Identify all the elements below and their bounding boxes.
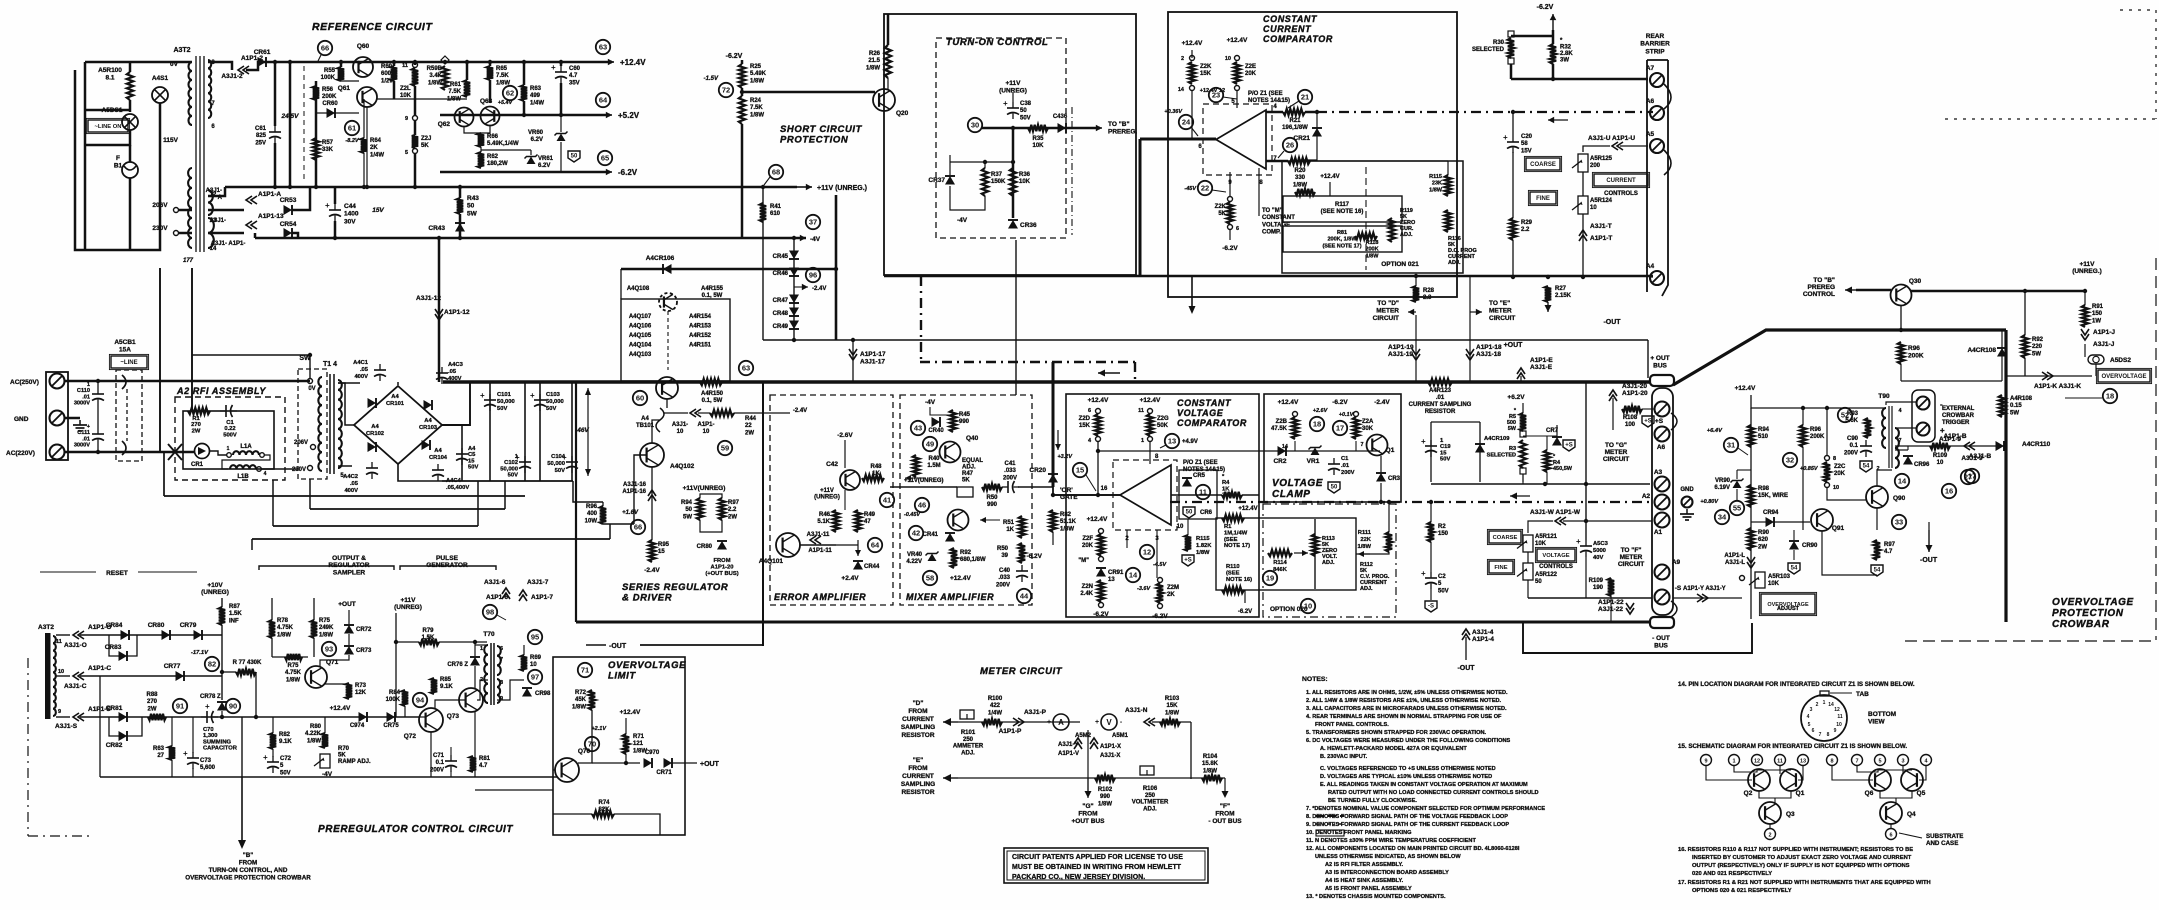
IC Z1 pin 7 [1819, 732, 1822, 738]
dashed box cc opamp [1203, 104, 1272, 175]
capacitor C70 summing [201, 702, 218, 723]
label R111 22K 1/8W [1357, 530, 1371, 550]
pad R30 top [1508, 31, 1514, 37]
label L1B pin4 [264, 471, 267, 477]
label R115 1.82K [1196, 536, 1212, 556]
arrow below comparator [1189, 277, 1196, 314]
svg-text:10: 10 [1225, 56, 1231, 62]
label R97 2.2 2W [728, 500, 740, 520]
text note line 10 [1320, 766, 1496, 772]
svg-text:10: 10 [1304, 602, 1312, 611]
IC Z1 pin 14 [1828, 702, 1834, 708]
dimension arrow 46V [585, 388, 591, 476]
label L1B [237, 474, 249, 480]
capacitor A5C3 5000 40V [1576, 537, 1592, 557]
circled 66b [318, 41, 332, 55]
resistor R35 10K [1028, 125, 1048, 131]
svg-text:A4Q101: A4Q101 [759, 558, 784, 565]
label R76 4.75K 1/8W [285, 663, 302, 683]
wire R87 v [221, 598, 223, 607]
label Q5 ic [1917, 790, 1926, 797]
wire C19 loop [1431, 421, 1480, 423]
label Q61 [338, 85, 351, 92]
lamp A4S1 [152, 87, 168, 103]
svg-text:65: 65 [601, 154, 609, 163]
label R97 4.7 [1884, 542, 1896, 555]
label R70 5K RAMP ADJ [338, 746, 371, 765]
wire ic q3 emit [1769, 824, 1771, 829]
svg-text:+0.36V: +0.36V [1164, 109, 1183, 115]
circled 27 [1961, 470, 1975, 484]
svg-text:CURRENT: CURRENT [1606, 178, 1636, 184]
resistor R76 4.75K [285, 654, 302, 660]
connector A1P1-U [1612, 142, 1623, 150]
label CR43 [428, 225, 445, 232]
svg-text:+2.1V: +2.1V [591, 726, 607, 732]
bus jumper arc1 [1671, 413, 1677, 430]
label pin8 [1259, 180, 1263, 186]
label +0.88V cb [1800, 466, 1819, 472]
label -4.5V cv [1153, 562, 1167, 568]
wire R63 top [523, 62, 526, 85]
circled 64b [868, 538, 882, 552]
label C102 50000 50V [500, 454, 519, 479]
resistor R96 200K [1898, 342, 1904, 364]
terminal Z2G bot [1148, 437, 1153, 442]
svg-text:11. N DENOTES ±30% PPM WIRE TE: 11. N DENOTES ±30% PPM WIRE TEMPERATURE … [1306, 838, 1476, 844]
wire ic q5 base [1902, 766, 1904, 774]
resistor R113 5K [1312, 534, 1318, 556]
label CR95 [1914, 462, 1930, 468]
label pin 10 [1225, 56, 1231, 62]
svg-text:C40.033200V: C40.033200V [996, 568, 1011, 588]
capacitor C1 0.22 500V [220, 405, 237, 417]
label A3J1-16 [622, 482, 646, 495]
svg-text:+: + [1421, 437, 1426, 446]
terminal T1 230V [308, 466, 313, 471]
wire R60 col [393, 62, 396, 66]
svg-text:CR71: CR71 [656, 770, 672, 776]
label A9 bus [1672, 559, 1681, 566]
arrow -OUT crowbar [1926, 530, 1933, 552]
svg-text:+12.4V: +12.4V [330, 705, 351, 712]
svg-text:1: 1 [1141, 438, 1144, 444]
svg-text:Q61: Q61 [338, 85, 351, 92]
label TO B PREREG [1108, 121, 1137, 136]
svg-text:206V: 206V [152, 202, 168, 209]
label C19 15 50V [1440, 438, 1451, 463]
junction rail 187 x763 [761, 185, 765, 189]
label Q62 [438, 121, 451, 128]
junction +12.4V rail x341 [339, 60, 343, 64]
svg-text:A4CR109: A4CR109 [1484, 436, 1510, 442]
wire CR90 v [1793, 530, 1795, 540]
label +OUT mid [1504, 342, 1524, 349]
wire pots join v [1527, 552, 1529, 563]
terminal A5 [1650, 139, 1664, 153]
transistor Q73 [459, 688, 483, 712]
arrow B down [238, 840, 246, 849]
svg-text:Q73: Q73 [447, 713, 460, 720]
svg-text:5: 5 [405, 150, 408, 156]
svg-text:GND: GND [1680, 487, 1694, 493]
wire pin9 down [1229, 172, 1231, 196]
svg-text:TO "F"METERCIRCUIT: TO "F"METERCIRCUIT [1618, 547, 1644, 568]
label P/O Z1 cv [1183, 460, 1225, 473]
resistor R56 200K [313, 86, 319, 100]
wire ovl bottom wires [475, 789, 553, 791]
wire clamp node2 [1355, 441, 1357, 451]
diode CR970 [644, 758, 653, 768]
label A5M1 [1112, 733, 1129, 739]
wire CR90 bot [1793, 550, 1795, 560]
label A3J1-J [2093, 341, 2115, 348]
wire meter right v [1190, 722, 1192, 779]
svg-text:COARSE: COARSE [1530, 162, 1556, 168]
circled 91 [173, 699, 187, 713]
label TAB [1856, 691, 1869, 698]
label CR37 [928, 177, 945, 184]
svg-text:Q4: Q4 [1907, 811, 1916, 818]
svg-text:CR77: CR77 [164, 663, 181, 670]
wire R109 bot [1610, 596, 1612, 622]
resistor R118 200K [1355, 233, 1377, 239]
label A3J1-7 [527, 579, 549, 586]
transformer A3T2 primary winding lower [188, 168, 192, 248]
heavy wire cc input [1140, 138, 1216, 141]
circled 64 [596, 93, 610, 107]
label T90 pin7 [1898, 438, 1901, 444]
wire R4 wires [1546, 436, 1548, 450]
IC pin number 7 [1855, 759, 1858, 765]
jumper arc A7-A6 [1664, 84, 1671, 109]
circled 11 cv [1196, 485, 1210, 499]
lamp A5DS1 [122, 114, 138, 130]
label VR60 6.2V [528, 130, 544, 143]
diode CR76 [470, 657, 480, 666]
svg-text:50: 50 [1331, 485, 1338, 491]
svg-text:+: + [1940, 426, 1945, 435]
label C104 50000 50V [547, 454, 566, 474]
svg-text:7: 7 [1898, 438, 1901, 444]
wire R21 to junction [1305, 111, 1317, 114]
title SERIES REGULATOR DRIVER [622, 582, 728, 604]
resistor R94 50 5W [697, 498, 703, 520]
label R2 150 [1438, 524, 1449, 537]
label C90 0.1 200V [1844, 436, 1859, 456]
terminal Z2J top [413, 116, 418, 121]
wire C102 column [524, 382, 526, 481]
label PULSE GENERATOR [426, 555, 468, 569]
svg-text:ADJUST: ADJUST [1777, 606, 1800, 612]
resistor R73 12K [346, 683, 352, 699]
label T70 [483, 631, 495, 638]
label -2.4V chain [812, 286, 826, 292]
svg-text:REFERENCE CIRCUIT: REFERENCE CIRCUIT [312, 21, 433, 33]
svg-text:R3610K: R3610K [1019, 172, 1031, 185]
svg-text:A5M1: A5M1 [1112, 733, 1129, 739]
voltmeter A5M1 [1095, 714, 1123, 730]
wire R43 column [459, 187, 462, 198]
circled 34 [1715, 510, 1729, 524]
wire VR90 bot [1736, 489, 1738, 500]
svg-text:R465.1K: R465.1K [817, 512, 830, 525]
circled 14b [1895, 474, 1909, 488]
svg-text:A4: A4 [1646, 263, 1655, 270]
label E FROM [901, 757, 935, 796]
svg-text:15: 15 [1076, 466, 1084, 475]
wire ic to q4 [1895, 798, 1897, 803]
label CR80 [697, 544, 713, 550]
dashed feedback voltage [1170, 501, 1652, 503]
label A3J1-1 A1P1-1 [211, 241, 246, 247]
resistor Z2J 5K [412, 135, 418, 148]
label R32 2.8K 3W [1560, 38, 1573, 64]
label A3J1-B [1969, 453, 1992, 460]
svg-text:CR6: CR6 [1200, 510, 1213, 516]
svg-text:A1P1-T: A1P1-T [1590, 235, 1612, 242]
wire A1P1-17 drop [852, 340, 854, 382]
svg-text:CR76 Z: CR76 Z [447, 662, 468, 668]
label R85 9.1K [440, 677, 453, 690]
boxed label VOLTAGE [1535, 547, 1576, 562]
circled 62 [503, 86, 517, 100]
svg-text:A2 IS RFI FILTER ASSEMBLY.: A2 IS RFI FILTER ASSEMBLY. [1325, 862, 1404, 868]
big box left edge [575, 382, 577, 622]
resistor R93 5.6K [1865, 418, 1871, 438]
svg-text:A3J1-P: A3J1-P [1024, 709, 1047, 716]
junction +5.2V rail x524 [522, 113, 526, 117]
junction R2 dash [1429, 500, 1433, 504]
arrow TO D meter [1408, 309, 1416, 316]
label +6.2V sense [1507, 394, 1525, 401]
svg-text:7. *DENOTES NOMINAL VALUE COMP: 7. *DENOTES NOMINAL VALUE COMPONENT SELE… [1306, 806, 1545, 812]
svg-text:+OUT: +OUT [338, 601, 356, 608]
svg-text:11: 11 [402, 63, 408, 69]
svg-text:A1P1-9: A1P1-9 [1939, 436, 1961, 443]
label A3J1-6 [484, 579, 506, 586]
svg-text:22: 22 [1201, 184, 1209, 193]
svg-text:A3J1-: A3J1- [210, 218, 226, 224]
resistor R114 846K [1268, 550, 1292, 556]
label A1P1-J [2093, 329, 2115, 336]
dashed box cv opamp [1113, 460, 1177, 530]
wire C60 bot [560, 83, 563, 115]
wire turn-on output [982, 127, 1100, 130]
svg-text:2: 2 [1181, 56, 1184, 62]
wire AC bottom [65, 451, 195, 454]
junction z2d node [1096, 449, 1100, 453]
terminal A1 bus [1655, 513, 1670, 528]
capacitor C44 1400 30V [325, 201, 341, 221]
label A5R124 10 [1590, 198, 1613, 211]
circled 71 [578, 663, 592, 677]
label C40 .033 200V [996, 568, 1011, 588]
label Z2J 5K [421, 136, 431, 149]
zener VR90 [1731, 479, 1744, 489]
IC pin circle 6 [1886, 829, 1897, 840]
label R79 1.5K [422, 628, 435, 641]
label R65 7.5K 1/8W [496, 66, 510, 86]
label T90 pin4 [1898, 408, 1902, 414]
resistor R97 2.2 2W [719, 498, 725, 520]
label CR5 cv [1193, 473, 1206, 479]
wire CR54 out [292, 233, 298, 238]
label -4V pre [322, 771, 333, 778]
heavy vertical bus x836 [835, 195, 838, 340]
svg-text:+12.4V: +12.4V [1087, 516, 1108, 523]
label +12.4V cc1 [1182, 40, 1203, 47]
label pin 14 [210, 246, 217, 252]
label -3.6V cv [1137, 586, 1151, 592]
svg-text:9: 9 [1834, 728, 1837, 734]
svg-text:+5.4V: +5.4V [498, 100, 514, 106]
label CR36 [1020, 222, 1037, 229]
label Z2M 2K [1167, 585, 1179, 598]
label A3J1-2 [221, 73, 243, 80]
transformer A3T2 secondary bot [208, 218, 214, 248]
resistor Z2B 47.5K [1292, 417, 1298, 439]
connector A1P1-13 [246, 221, 257, 229]
pentagon cv 50 [1183, 507, 1195, 518]
svg-text:AC(220V): AC(220V) [6, 450, 35, 457]
pentagon -S c2 [1425, 601, 1437, 612]
svg-text:95: 95 [531, 633, 539, 642]
label A4Q101 [759, 558, 784, 565]
wire CR72 col [348, 610, 350, 624]
wire z2g down pin8 [1149, 441, 1151, 464]
IC pin number 5 [1878, 759, 1881, 765]
label R116 5K DC PROG [1448, 236, 1477, 266]
capacitor A4C5 [456, 448, 468, 465]
label -S bus [1675, 585, 1682, 592]
svg-text:0V: 0V [308, 386, 315, 392]
wire R115 top [1447, 161, 1449, 175]
svg-text:2. ALL 1/4W & 1/8W RESISTORS: 2. ALL 1/4W & 1/8W RESISTORS ARE ±1%, UN… [1306, 698, 1501, 704]
connector A1P1-2 [238, 66, 249, 74]
diode CR80 [717, 541, 727, 550]
label pin3 cv [1155, 536, 1159, 542]
box voltage clamp [1264, 394, 1401, 502]
circled 15 [1073, 463, 1087, 477]
label CR49 [773, 324, 789, 330]
svg-text:-0.45V: -0.45V [904, 512, 922, 518]
svg-text:+: + [1095, 719, 1099, 726]
wire row S 2 [80, 716, 242, 718]
potentiometer A5R125 200 [1572, 154, 1588, 172]
wire primary top to lamps [85, 61, 192, 64]
label A4CR102 [366, 424, 384, 437]
heavy rail y=276 [884, 275, 1653, 278]
wire K horizontal [2006, 375, 2092, 377]
wire lamp bottom [85, 103, 160, 250]
label CR53 [280, 197, 297, 204]
svg-text:+12.4V: +12.4V [1320, 174, 1339, 180]
resistor R1 1M [1222, 515, 1244, 521]
svg-text:+11V (UNREG.): +11V (UNREG.) [817, 185, 867, 192]
label pin4 cv [1088, 438, 1092, 444]
label A1 bus [1654, 529, 1663, 536]
wire -6.2V rail [440, 171, 610, 174]
svg-text:43: 43 [914, 424, 922, 433]
label A1P1-2 [241, 55, 263, 62]
wire node col x290 [289, 62, 292, 187]
svg-text:8: 8 [500, 680, 503, 686]
junction C38 node [1011, 126, 1015, 130]
svg-text:13. * DENOTES CHASSIS MOUNTED: 13. * DENOTES CHASSIS MOUNTED COMPONENTS… [1306, 894, 1446, 900]
label A1P1-17 [860, 351, 886, 366]
pilot lamp A5DS2 [2088, 355, 2104, 364]
transformer T70 primary [484, 645, 488, 703]
label C71 0.1 200V [430, 753, 445, 773]
svg-text:OPTION 021: OPTION 021 [1381, 261, 1419, 268]
label R75 249K 1/8W [319, 618, 334, 638]
wire T1 sec top [338, 382, 360, 384]
label R1 270 2W [191, 416, 201, 434]
capacitor C71 0.1 200V [445, 755, 457, 772]
svg-text:+12.4V: +12.4V [1140, 397, 1161, 404]
resistor R43 50 5W [457, 198, 463, 214]
junction C20 node [1511, 110, 1515, 114]
wire R65 top [489, 62, 492, 66]
circled 66 [631, 520, 645, 534]
label Q4 ic [1907, 811, 1916, 818]
junction crowbar mid [1801, 406, 1805, 410]
wire C73 col [192, 717, 194, 753]
IC Z1 pin 8 [1827, 732, 1830, 738]
label R88 270 2W [146, 692, 158, 712]
diode CR53 [284, 205, 293, 215]
connector A1P1-L [1747, 557, 1755, 568]
junction R71 ovl [624, 761, 628, 765]
label R115 23K 1/8W [1429, 174, 1443, 193]
wire R75 col [313, 598, 315, 620]
barrier strip left edge [1646, 60, 1648, 292]
label +12.4V cv1 [1088, 397, 1109, 404]
svg-text:6: 6 [1088, 408, 1091, 414]
wire y598 to -S [1528, 597, 1652, 599]
wire substrate pointer [1899, 833, 1922, 838]
wire c68 pointer [764, 177, 770, 185]
box turn-on control [884, 14, 1136, 275]
label R55 100K [321, 68, 336, 81]
label F FROM -OUT BUS [1208, 803, 1242, 825]
junction rail187 x364 [362, 185, 366, 189]
wire row O [56, 634, 70, 636]
wire -out branch [1928, 522, 1930, 530]
junction +12.4V rail x490 [488, 60, 492, 64]
svg-text:31: 31 [1727, 441, 1735, 450]
label A4R123 current sampling [1409, 388, 1472, 415]
IC Z1 pin 12 [1834, 707, 1840, 713]
label A6 [1646, 98, 1655, 105]
label VR40 4.22V [906, 552, 922, 565]
wire rail to A4 terminal [1650, 276, 1653, 278]
svg-text:CONTROLS: CONTROLS [1604, 191, 1638, 197]
svg-text:-6.2V: -6.2V [1238, 609, 1252, 615]
arrow D left [943, 718, 958, 726]
circled 37 [806, 215, 820, 229]
IC pin circle 3 [1898, 755, 1909, 766]
svg-text:CR48: CR48 [773, 311, 789, 317]
svg-text:V: V [1106, 718, 1112, 727]
label B FROM TURN-ON [185, 852, 311, 882]
label CR73 [356, 648, 372, 654]
dashed page border bottom left [27, 658, 29, 836]
svg-text:ERROR AMPLIFIER: ERROR AMPLIFIER [774, 592, 866, 602]
svg-text:CR41: CR41 [923, 532, 939, 538]
label pin9 [1228, 180, 1232, 186]
